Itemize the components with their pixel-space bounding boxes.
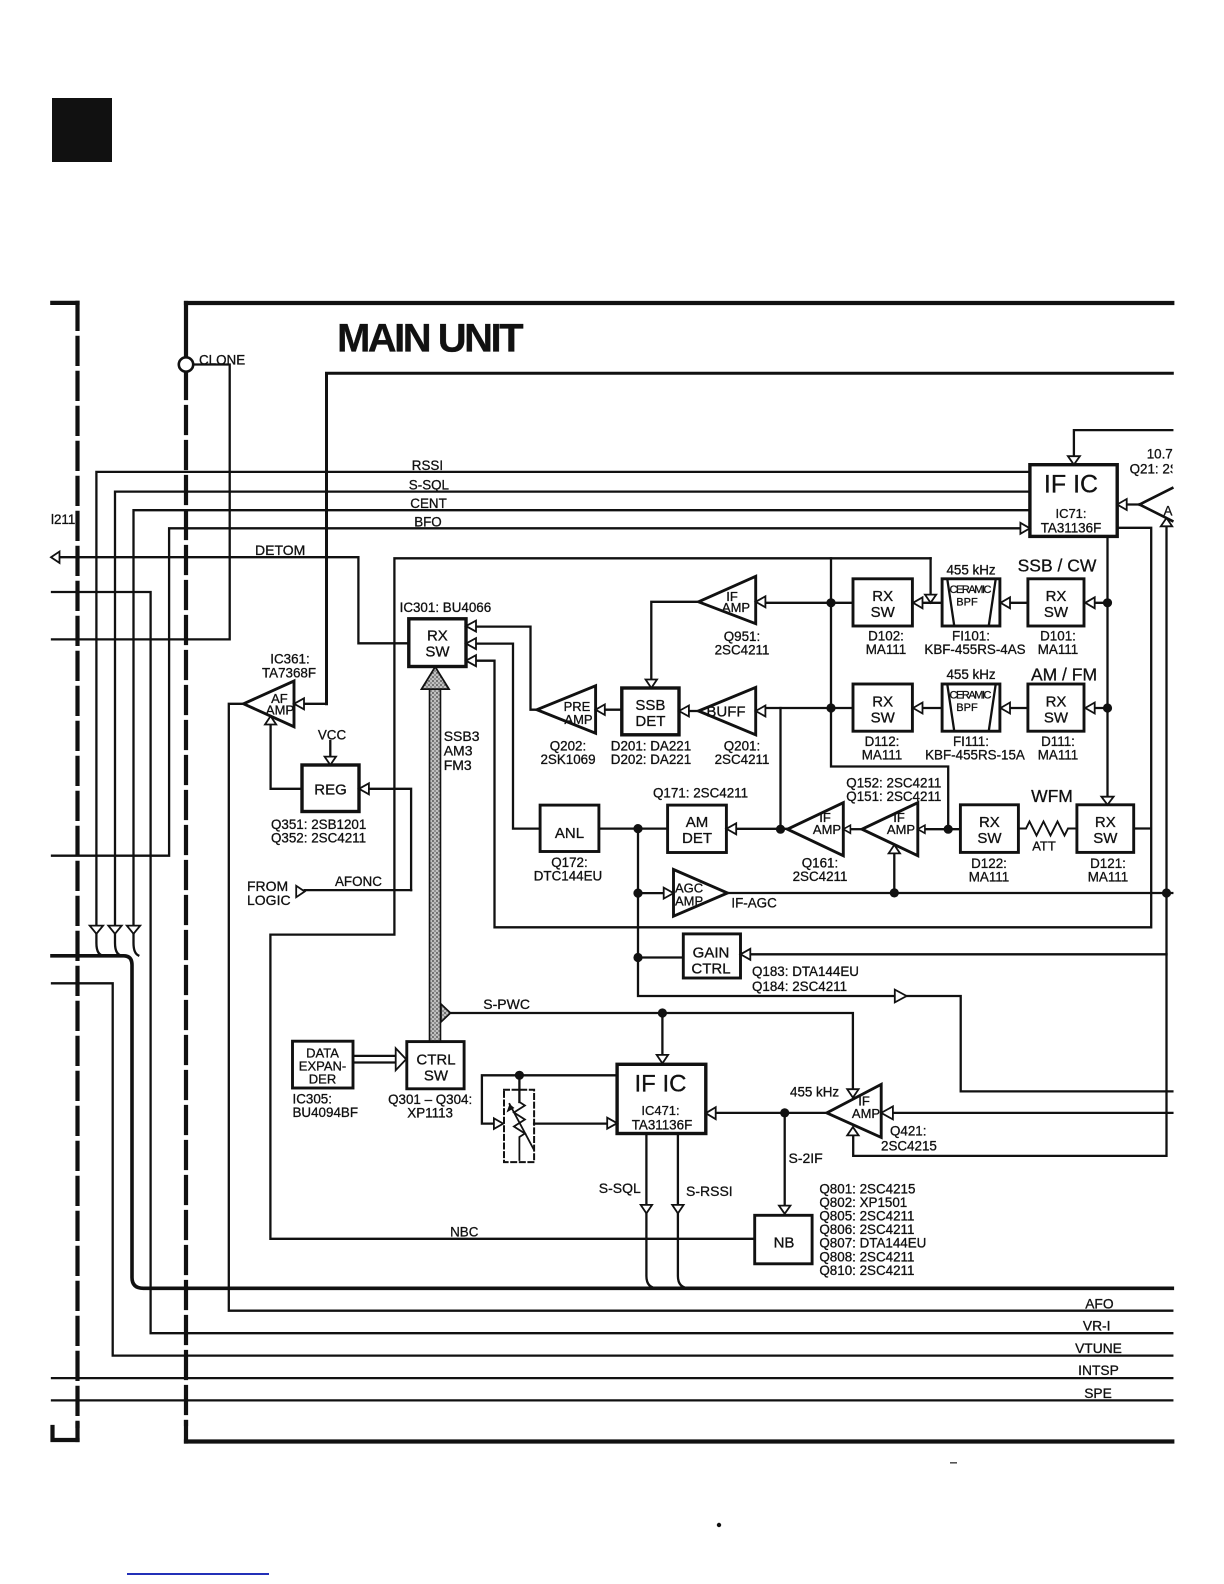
svg-text:AM: AM — [1164, 504, 1184, 519]
svg-text:BPF: BPF — [956, 702, 978, 714]
svg-text:Q184: 2SC4211: Q184: 2SC4211 — [752, 979, 847, 994]
svg-text:TA31136F: TA31136F — [632, 1118, 693, 1133]
svg-text:AMP: AMP — [813, 822, 841, 837]
svg-text:MA111: MA111 — [862, 747, 902, 762]
svg-text:MAIN UNIT: MAIN UNIT — [337, 317, 524, 361]
svg-text:10.7: 10.7 — [1147, 446, 1173, 461]
svg-text:S-RSSI: S-RSSI — [686, 1183, 733, 1199]
svg-text:WFM: WFM — [1031, 786, 1073, 806]
svg-text:DETOM: DETOM — [255, 542, 305, 558]
svg-text:KBF-455RS-4AS: KBF-455RS-4AS — [924, 642, 1025, 657]
svg-text:SW: SW — [871, 709, 896, 726]
svg-text:D202: DA221: D202: DA221 — [611, 752, 691, 767]
svg-text:S-SQL: S-SQL — [599, 1180, 641, 1196]
svg-text:S-2IF: S-2IF — [789, 1150, 823, 1166]
svg-text:DET: DET — [682, 830, 712, 847]
svg-text:BUFF: BUFF — [706, 704, 745, 721]
svg-text:AMP: AMP — [722, 600, 750, 615]
svg-text:SSB / CW: SSB / CW — [1018, 556, 1097, 576]
svg-text:SW: SW — [424, 1068, 449, 1085]
svg-text:RSSI: RSSI — [412, 458, 443, 473]
svg-text:SW: SW — [1044, 604, 1069, 621]
svg-text:CENT: CENT — [410, 496, 446, 511]
svg-text:AMP: AMP — [266, 703, 294, 718]
svg-text:AMP: AMP — [564, 712, 592, 727]
svg-text:TA7368F: TA7368F — [262, 666, 316, 681]
svg-text:IF IC: IF IC — [635, 1071, 687, 1098]
svg-text:IC301: BU4066: IC301: BU4066 — [400, 600, 492, 615]
svg-text:455 kHz: 455 kHz — [946, 667, 995, 682]
svg-text:DER: DER — [309, 1072, 336, 1087]
svg-text:ANL: ANL — [555, 825, 584, 842]
svg-text:SPE: SPE — [1084, 1386, 1112, 1401]
svg-text:CTRL: CTRL — [416, 1052, 455, 1069]
svg-text:Q151: 2SC4211: Q151: 2SC4211 — [846, 789, 941, 804]
svg-text:INTSP: INTSP — [1078, 1363, 1119, 1378]
svg-text:VTUNE: VTUNE — [1075, 1341, 1122, 1356]
svg-text:RX: RX — [979, 814, 1000, 831]
svg-text:MA111: MA111 — [1038, 642, 1078, 657]
svg-text:RX: RX — [1046, 693, 1067, 710]
svg-text:IC361:: IC361: — [270, 652, 309, 667]
svg-text:2SC4211: 2SC4211 — [793, 869, 848, 884]
svg-text:S-SQL: S-SQL — [409, 478, 449, 493]
svg-text:DTC144EU: DTC144EU — [534, 869, 602, 884]
svg-text:KBF-455RS-15A: KBF-455RS-15A — [925, 747, 1025, 762]
svg-text:S-PWC: S-PWC — [483, 996, 530, 1012]
svg-text:RX: RX — [1046, 588, 1067, 605]
svg-text:AFO: AFO — [1085, 1296, 1114, 1311]
svg-text:REG: REG — [314, 782, 347, 799]
svg-text:DET: DET — [635, 713, 665, 730]
svg-text:RX: RX — [1095, 814, 1116, 831]
svg-text:AMP: AMP — [852, 1106, 880, 1121]
svg-text:455 kHz: 455 kHz — [790, 1085, 839, 1100]
svg-text:AM / FM: AM / FM — [1031, 665, 1097, 685]
svg-text:NB: NB — [774, 1235, 795, 1252]
svg-text:Q421:: Q421: — [890, 1123, 926, 1138]
svg-text:BPF: BPF — [956, 597, 978, 609]
svg-text:VCC: VCC — [318, 728, 347, 743]
svg-text:GAIN: GAIN — [693, 945, 730, 962]
svg-text:SW: SW — [425, 644, 450, 661]
svg-text:FM3: FM3 — [444, 757, 472, 773]
svg-text:MA111: MA111 — [1038, 747, 1078, 762]
svg-text:NBC: NBC — [450, 1224, 479, 1239]
svg-text:LOGIC: LOGIC — [247, 892, 291, 908]
svg-text:MA111: MA111 — [969, 870, 1009, 885]
svg-text:RX: RX — [427, 628, 448, 645]
svg-text:AMP: AMP — [675, 894, 703, 909]
svg-text:Q171: 2SC4211: Q171: 2SC4211 — [653, 786, 748, 801]
svg-text:CTRL: CTRL — [691, 961, 730, 978]
svg-text:IC71:: IC71: — [1055, 506, 1086, 521]
svg-text:BFO: BFO — [414, 514, 442, 529]
svg-text:AM: AM — [686, 814, 709, 831]
svg-text:Q810: 2SC4211: Q810: 2SC4211 — [819, 1263, 914, 1278]
svg-text:SW: SW — [977, 830, 1002, 847]
svg-text:BU4094BF: BU4094BF — [293, 1105, 359, 1120]
svg-text:Q352: 2SC4211: Q352: 2SC4211 — [271, 831, 366, 846]
svg-text:CERAMIC: CERAMIC — [950, 584, 992, 596]
svg-text:IF IC: IF IC — [1044, 471, 1098, 499]
svg-text:MA111: MA111 — [866, 642, 906, 657]
svg-text:SW: SW — [1093, 830, 1118, 847]
svg-text:SW: SW — [1044, 709, 1069, 726]
svg-text:RX: RX — [872, 588, 893, 605]
svg-text:SSB: SSB — [635, 697, 665, 714]
svg-text:SW: SW — [871, 604, 896, 621]
svg-text:AFONC: AFONC — [335, 874, 382, 889]
svg-text:Q21: 2S: Q21: 2S — [1130, 461, 1179, 476]
svg-text:2SK1069: 2SK1069 — [540, 752, 595, 767]
svg-text:RX: RX — [872, 693, 893, 710]
svg-text:TA31136F: TA31136F — [1041, 521, 1102, 536]
svg-text:AMP: AMP — [887, 822, 915, 837]
svg-text:2SC4211: 2SC4211 — [715, 752, 770, 767]
svg-text:2SC4211: 2SC4211 — [715, 643, 770, 658]
svg-text:Q183: DTA144EU: Q183: DTA144EU — [752, 964, 859, 979]
svg-text:2SC4215: 2SC4215 — [881, 1139, 937, 1154]
svg-text:CERAMIC: CERAMIC — [950, 689, 992, 701]
svg-text:XP1113: XP1113 — [407, 1106, 453, 1121]
svg-text:CLONE: CLONE — [199, 352, 245, 367]
svg-text:IF-AGC: IF-AGC — [731, 896, 777, 911]
svg-text:VR-I: VR-I — [1083, 1318, 1111, 1333]
svg-text:IC471:: IC471: — [641, 1103, 679, 1118]
svg-text:l211: l211 — [51, 512, 75, 527]
svg-text:455 kHz: 455 kHz — [946, 563, 995, 578]
svg-text:ATT: ATT — [1032, 839, 1056, 854]
svg-text:MA111: MA111 — [1088, 870, 1128, 885]
